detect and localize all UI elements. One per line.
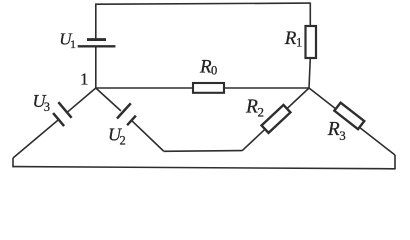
svg-text:R: R (245, 96, 258, 117)
resistor R2 (262, 105, 291, 133)
wire node 1 to U2 (96, 88, 121, 111)
battery U1 short plate (87, 38, 106, 41)
svg-text:2: 2 (258, 105, 265, 120)
wire node 1 to U3 (67, 88, 96, 112)
battery U2 short plate (127, 116, 136, 126)
resistor R3 (334, 103, 364, 129)
wire U3 to bottom left corner (13, 120, 59, 158)
svg-text:3: 3 (339, 128, 346, 143)
wire R3 to bottom right corner (345, 116, 395, 155)
wire top right vertical to R1 (309, 3, 311, 27)
battery U1 long plate (78, 45, 116, 47)
wire U2 to bottom bend (132, 120, 164, 151)
wire R0 to node 2 (224, 87, 309, 89)
wire bottom right vertical (394, 155, 396, 169)
resistor R0 (193, 83, 224, 93)
svg-text:2: 2 (120, 133, 126, 147)
svg-text:R: R (284, 28, 297, 49)
wire R2 to node 2 (272, 88, 309, 123)
resistor R1 (306, 26, 317, 58)
svg-text:1: 1 (70, 37, 76, 51)
svg-text:R: R (327, 119, 340, 140)
wire left vertical above U1 (95, 3, 97, 38)
battery U3 long plate (58, 102, 71, 118)
svg-text:0: 0 (211, 64, 217, 78)
wire node 2 to R3 (309, 88, 354, 123)
wire inner bottom horizontal (164, 150, 243, 153)
wire U1 to node 1 (95, 47, 97, 88)
svg-text:1: 1 (296, 36, 302, 50)
svg-text:3: 3 (44, 100, 50, 114)
wire bottom left vertical (12, 158, 14, 167)
wire bend to R2 (242, 115, 280, 151)
battery U3 short plate (53, 113, 64, 126)
wire node 1 to R0 (96, 87, 193, 89)
svg-text:1: 1 (80, 70, 89, 89)
battery U2 long plate (117, 103, 131, 118)
wire R1 to node 2 (309, 58, 310, 88)
wire bottom horizontal (13, 167, 395, 169)
wire top horizontal (96, 3, 310, 4)
